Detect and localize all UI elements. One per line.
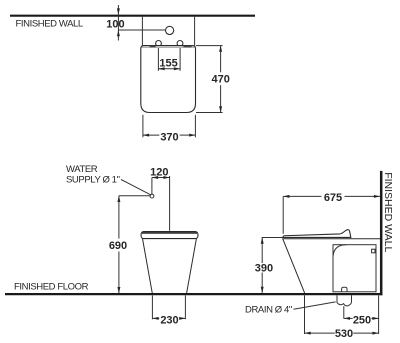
svg-text:FINISHED WALL: FINISHED WALL xyxy=(382,172,394,252)
svg-text:390: 390 xyxy=(255,262,273,274)
svg-text:DRAIN Ø 4": DRAIN Ø 4" xyxy=(245,304,292,315)
svg-text:100: 100 xyxy=(106,18,124,30)
svg-text:470: 470 xyxy=(212,74,230,86)
svg-text:675: 675 xyxy=(324,192,342,204)
svg-text:FINISHED FLOOR: FINISHED FLOOR xyxy=(14,282,89,293)
svg-text:530: 530 xyxy=(335,328,353,340)
svg-text:SUPPLY Ø 1": SUPPLY Ø 1" xyxy=(66,175,120,186)
svg-text:370: 370 xyxy=(160,132,178,144)
svg-text:690: 690 xyxy=(109,240,127,252)
svg-text:WATER: WATER xyxy=(66,164,98,175)
svg-text:FINISHED WALL: FINISHED WALL xyxy=(16,19,83,30)
svg-text:250: 250 xyxy=(353,314,371,326)
svg-text:230: 230 xyxy=(160,314,178,326)
svg-text:155: 155 xyxy=(159,57,177,69)
